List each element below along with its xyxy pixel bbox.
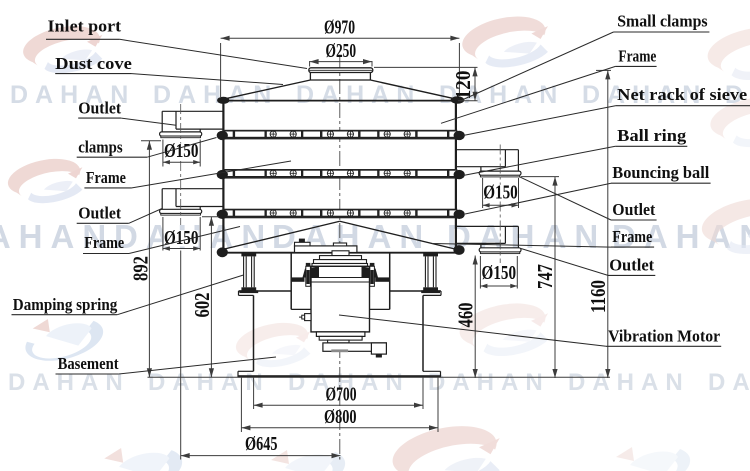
motor clamp left [303,267,320,278]
pan rim dot left [217,247,228,257]
damping spring right [423,253,438,256]
deck 1 clamp dot right [454,131,465,140]
motor clamp right [362,267,379,278]
dimension O150 lower-right [479,256,481,289]
watermark swirls [23,26,102,73]
svg-text:DAHAN: DAHAN [8,369,130,396]
deck 3 clamp dot right [454,210,465,219]
label Outlet leader [611,219,657,221]
svg-text:Ø645: Ø645 [245,433,278,455]
svg-text:Frame: Frame [84,233,124,252]
svg-text:460: 460 [454,303,478,328]
deck 1 clamp dot left [217,131,228,140]
platform plate [239,290,292,292]
svg-text:clamps: clamps [78,138,123,157]
dimension 602 [202,216,219,218]
svg-text:Ball ring: Ball ring [617,126,687,145]
label Basement leader [56,373,119,375]
label Frame leader [615,65,656,67]
deck 2 clamp dot left [217,170,228,179]
label Frame leader [611,246,654,248]
left outlet 2 duct [162,188,224,190]
svg-text:1160: 1160 [586,280,610,313]
svg-text:Bouncing ball: Bouncing ball [612,163,709,182]
svg-text:Ø150: Ø150 [483,182,518,204]
label Frame leader [83,253,129,255]
svg-text:Ø800: Ø800 [324,406,357,428]
clamp bolt right [370,263,375,266]
right outlet 1 duct [456,149,519,151]
svg-text:Outlet: Outlet [78,99,121,118]
dimension 747 [521,176,559,178]
bouncing balls in deck 2 [270,170,276,176]
motor top step 3 [312,264,368,267]
dimension 120 [374,66,478,68]
dust cover clamp dot left [217,97,229,104]
deck 2 clamp dot right [454,170,465,179]
svg-text:DAHAN: DAHAN [568,369,690,396]
svg-text:Net rack of sieve: Net rack of sieve [617,85,747,104]
svg-text:Outlet: Outlet [78,204,121,223]
body walls [222,101,224,250]
svg-text:Dust cove: Dust cove [55,54,132,73]
label clamps leader [77,156,148,158]
label Frame leader [84,187,131,189]
top bolt [299,239,305,243]
left outlet 1 flange [160,132,202,136]
svg-text:DAHAN: DAHAN [148,369,270,396]
dimension 460 [474,256,476,379]
pan rim dot right [453,245,464,255]
svg-text:Frame: Frame [612,227,652,246]
dimension O150 upper-left [162,140,164,167]
inlet port [309,68,373,73]
deck 3 clamp dot left [217,210,228,219]
dust cover [310,79,370,81]
svg-text:Ø150: Ø150 [482,262,517,284]
eccentric arm [371,343,386,354]
label Small clamps leader [614,31,710,33]
eccentric weight plate [323,343,387,351]
sieve deck band 2 [223,169,457,179]
svg-text:Inlet port: Inlet port [48,17,122,36]
svg-text:Vibration Motor: Vibration Motor [608,327,720,346]
svg-text:Basement: Basement [58,354,119,373]
right outlet 2 duct [456,225,519,227]
motor body [311,266,370,332]
svg-text:DAHAN: DAHAN [447,218,606,255]
damping spring left [241,253,256,256]
label Ball ring leader [615,145,687,147]
dimension O800 [240,377,242,432]
dimension 1160 [596,69,611,71]
svg-text:Frame: Frame [86,168,126,187]
vibration motor upper weight plate [295,246,357,253]
svg-text:Outlet: Outlet [609,256,654,275]
label Bouncing ball leader [611,182,711,184]
label Damping spring leader [12,314,118,316]
right outlet 1 flange [479,171,521,175]
svg-text:Small clamps: Small clamps [617,12,708,31]
mount arm right [375,277,389,281]
svg-text:602: 602 [190,293,214,318]
dust cover clamp dot right [451,96,465,104]
dimension O645 [180,251,182,460]
sieve deck band 1 [223,130,457,140]
svg-text:Outlet: Outlet [612,200,655,219]
dimension 892 [141,140,161,142]
left outlet 1 duct [162,110,224,112]
bouncing balls in deck 3 [270,210,276,216]
label Outlet leader [77,222,129,224]
svg-text:Frame: Frame [618,47,656,66]
right outlet 2 flange [479,248,521,252]
svg-text:120: 120 [451,71,475,100]
svg-text:Damping spring: Damping spring [13,295,118,314]
weight shading [331,349,348,352]
svg-text:DAHAN: DAHAN [153,81,278,109]
motor mount box [290,253,292,310]
base walls [253,295,255,371]
label Net rack of sieve leader [615,105,750,107]
svg-text:DAHAN: DAHAN [708,369,750,396]
svg-text:892: 892 [128,256,152,281]
mount arm left [291,277,305,281]
outlet centerline left [180,104,182,225]
svg-text:Ø250: Ø250 [326,40,357,62]
dimension O970 [220,43,222,97]
motor top step 1 [320,256,362,260]
svg-text:DAHAN: DAHAN [296,81,421,109]
label Dust cove leader [55,73,132,75]
sieve deck band 3 [223,209,457,219]
dimension O150 lower-left [162,217,164,251]
dimension O700 [253,377,255,409]
motor top step 2 [314,260,367,264]
svg-text:747: 747 [533,264,557,289]
clamp bolt left [306,263,311,266]
outlet centerline right [499,145,501,264]
centerline of machine [339,55,341,457]
motor side bolt [305,314,311,321]
motor bottom flange [316,332,365,337]
motor top shaft block [332,251,349,256]
svg-text:DAHAN: DAHAN [428,369,550,396]
svg-text:Ø970: Ø970 [324,17,355,39]
svg-text:Ø700: Ø700 [326,384,357,406]
label Outlet leader [608,274,655,276]
base bottom extension line [148,376,611,378]
bouncing balls in deck 1 [270,131,276,137]
label Outlet leader [78,117,121,119]
base bottom flange [238,370,254,372]
spring seat rim line [222,252,457,254]
label Vibration Motor leader [606,345,721,347]
left outlet 2 flange [160,209,202,213]
bottom cone [223,221,339,249]
label Inlet port leader [46,38,120,40]
dimension O250 [309,61,311,67]
dimension O150 upper-right [482,178,484,208]
